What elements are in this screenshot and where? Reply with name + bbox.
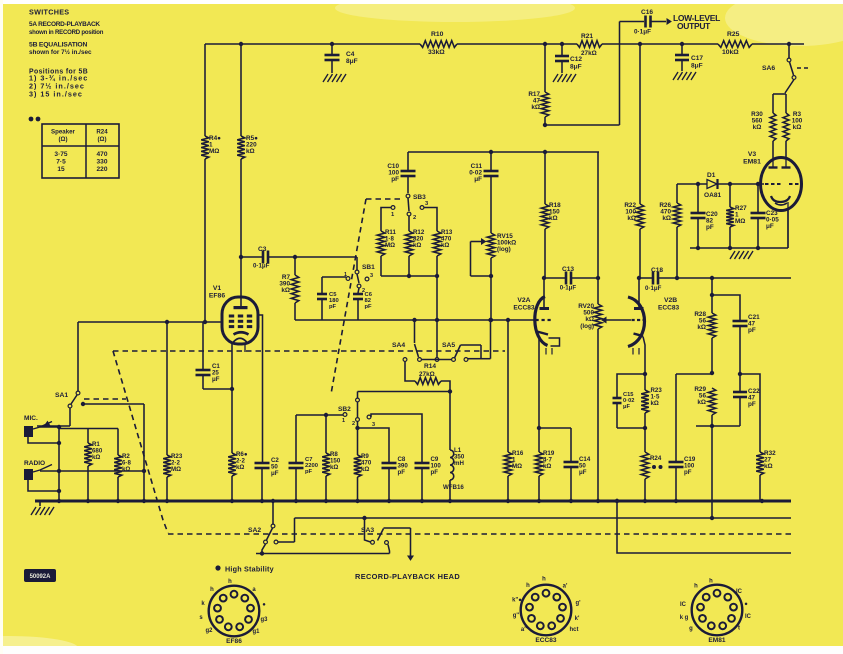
svg-text:h: h [694,584,698,590]
svg-text:SA1: SA1 [55,392,68,399]
svg-text:WFB16: WFB16 [443,484,464,491]
svg-text:SB2: SB2 [338,406,351,413]
svg-text:C12: C12 [570,56,582,63]
svg-text:MΩ: MΩ [385,242,395,249]
svg-text:EF86: EF86 [209,293,225,300]
svg-text:R24: R24 [650,455,662,462]
svg-text:kΩ: kΩ [236,464,244,471]
svg-text:RADIO: RADIO [24,460,45,467]
svg-text:shown for 7½ in./sec: shown for 7½ in./sec [29,48,92,56]
svg-text:hct: hct [570,627,579,633]
svg-text:ECC83: ECC83 [535,637,557,644]
svg-text:SB1: SB1 [362,264,375,271]
svg-text:μF: μF [623,404,630,410]
svg-text:SA6: SA6 [762,65,775,72]
svg-text:330: 330 [97,159,108,166]
svg-text:R14: R14 [424,363,436,370]
svg-text:R10: R10 [431,31,444,38]
svg-text:V1: V1 [213,285,222,292]
svg-text:h: h [228,579,232,585]
svg-text:pF: pF [398,469,406,476]
svg-text:pF: pF [391,176,399,183]
svg-text:h: h [709,579,713,585]
svg-text:(Ω): (Ω) [58,136,67,143]
svg-text:8μF: 8μF [570,64,582,71]
svg-text:OA81: OA81 [704,192,721,199]
svg-text:k''●: k''● [512,598,522,604]
svg-text:μF: μF [271,470,279,477]
svg-text:g': g' [575,601,581,607]
svg-text:180: 180 [329,298,339,304]
svg-text:D1: D1 [707,172,716,179]
svg-text:0·1μF: 0·1μF [645,285,662,292]
svg-text:8μF: 8μF [346,58,358,65]
svg-text:IC: IC [736,589,743,595]
svg-text:g1: g1 [253,629,261,635]
svg-text:t: t [738,626,740,632]
svg-text:●: ● [744,602,748,608]
svg-text:1: 1 [342,418,345,424]
svg-text:pF: pF [431,469,439,476]
svg-text:g2: g2 [206,628,214,634]
svg-text:μF: μF [474,176,482,183]
svg-text:kΩ: kΩ [92,454,100,461]
svg-text:470: 470 [97,151,108,158]
svg-text:MΩ: MΩ [209,148,219,155]
svg-text:C7: C7 [305,457,312,463]
svg-text:C13: C13 [562,266,574,273]
svg-text:V2A: V2A [517,297,530,304]
svg-text:SA2: SA2 [248,527,261,534]
svg-text:MIC.: MIC. [24,415,38,422]
svg-text:High Stability: High Stability [225,565,274,574]
svg-text:kΩ: kΩ [441,242,449,249]
svg-text:kΩ: kΩ [122,466,130,473]
svg-text:kΩ: kΩ [543,463,551,470]
svg-text:C3: C3 [258,246,267,253]
svg-text:OUTPUT: OUTPUT [677,21,711,31]
svg-text:pF: pF [684,469,692,476]
svg-text:220: 220 [97,166,108,173]
svg-text:2200: 2200 [305,463,318,469]
svg-text:Speaker: Speaker [51,129,76,136]
svg-text:2: 2 [352,421,355,427]
svg-text:MΩ: MΩ [735,218,745,225]
svg-text:kΩ: kΩ [651,400,659,407]
svg-text:3: 3 [372,422,375,428]
svg-text:kΩ: kΩ [697,399,706,406]
svg-text:pF: pF [365,304,373,310]
svg-text:0·1μF: 0·1μF [634,29,651,36]
svg-text:(log): (log) [497,246,511,253]
svg-text:ECC83: ECC83 [658,305,680,312]
svg-text:3·75: 3·75 [54,151,67,158]
svg-text:g'': g'' [513,613,520,619]
svg-text:MΩ: MΩ [171,466,181,473]
svg-text:kΩ: kΩ [549,215,558,222]
svg-text:SA5: SA5 [442,342,455,349]
svg-text:33kΩ: 33kΩ [428,49,445,56]
svg-text:C6: C6 [365,292,373,298]
svg-text:g: g [689,626,693,632]
svg-text:pF: pF [329,304,337,310]
svg-text:kΩ: kΩ [413,242,421,249]
svg-text:pF: pF [748,401,756,408]
svg-text:10kΩ: 10kΩ [722,49,739,56]
svg-text:R24: R24 [96,129,108,136]
svg-text:IC: IC [745,614,752,620]
svg-text:k': k' [575,616,580,622]
svg-text:h: h [210,587,214,593]
svg-text:MΩ: MΩ [512,463,522,470]
svg-text:C17: C17 [691,55,703,62]
svg-text:0·1μF: 0·1μF [253,263,270,270]
svg-text:C5: C5 [329,292,337,298]
svg-text:RECORD-PLAYBACK HEAD: RECORD-PLAYBACK HEAD [355,572,460,581]
svg-text:kΩ: kΩ [662,215,671,222]
svg-text:g3: g3 [261,617,269,623]
svg-text:kΩ: kΩ [361,466,369,473]
svg-text:μF: μF [579,469,587,476]
svg-text:●: ● [262,602,266,608]
svg-text:0·1μF: 0·1μF [560,285,577,292]
svg-text:kΩ: kΩ [627,215,636,222]
svg-text:IC: IC [680,602,687,608]
svg-text:SB3: SB3 [413,194,426,201]
svg-text:a'': a'' [521,627,528,633]
svg-text:EM81: EM81 [743,159,761,166]
svg-text:EM81: EM81 [708,637,725,644]
svg-text:pF: pF [305,469,313,475]
svg-text:5B EQUALISATION: 5B EQUALISATION [29,42,87,49]
svg-text:EF86: EF86 [226,638,242,645]
svg-text:μF: μF [212,376,220,383]
svg-text:kΩ: kΩ [281,287,290,294]
svg-text:3) 15 in./sec: 3) 15 in./sec [29,90,83,99]
svg-text:a': a' [563,584,568,590]
svg-text:27kΩ: 27kΩ [581,50,597,57]
svg-text:(log): (log) [580,323,594,330]
svg-text:mH: mH [454,460,464,467]
svg-text:C18: C18 [651,267,663,274]
svg-text:C16: C16 [641,9,653,16]
svg-text:kΩ: kΩ [764,463,773,470]
svg-text:h: h [542,577,546,583]
svg-text:R21: R21 [581,33,593,40]
svg-text:k g: k g [680,615,689,621]
svg-text:SA3: SA3 [361,527,374,534]
svg-text:5A RECORD-PLAYBACK: 5A RECORD-PLAYBACK [29,21,100,28]
svg-text:h: h [526,583,530,589]
svg-text:R25: R25 [727,31,740,38]
svg-text:7·5: 7·5 [56,159,66,166]
svg-text:ECC83: ECC83 [513,305,535,312]
svg-text:3: 3 [370,273,373,279]
svg-text:shown in RECORD position: shown in RECORD position [29,30,104,36]
svg-text:kΩ: kΩ [330,464,338,471]
svg-text:82: 82 [365,298,372,304]
svg-text:pF: pF [706,224,714,231]
svg-text:15: 15 [57,166,65,173]
svg-text:kΩ: kΩ [246,148,255,155]
svg-text:V2B: V2B [664,297,677,304]
svg-text:SWITCHES: SWITCHES [29,8,69,17]
svg-text:kΩ: kΩ [793,124,802,131]
svg-text:SA4: SA4 [392,342,405,349]
svg-text:kΩ: kΩ [531,104,540,111]
svg-text:8μF: 8μF [691,63,703,70]
svg-text:50092A: 50092A [30,574,52,580]
svg-text:V3: V3 [748,151,757,158]
svg-text:kΩ: kΩ [697,324,706,331]
svg-text:μF: μF [766,223,774,230]
svg-text:kΩ: kΩ [753,124,762,131]
svg-text:pF: pF [748,327,756,334]
svg-text:(Ω): (Ω) [97,136,106,143]
svg-text:27kΩ: 27kΩ [419,371,435,378]
